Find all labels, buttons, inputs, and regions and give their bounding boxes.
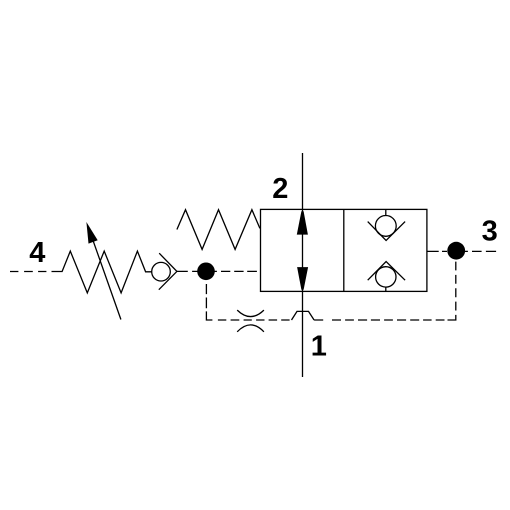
svg-text:3: 3 xyxy=(482,216,498,248)
svg-text:2: 2 xyxy=(272,173,288,205)
svg-text:4: 4 xyxy=(29,237,45,269)
svg-text:1: 1 xyxy=(311,331,327,363)
